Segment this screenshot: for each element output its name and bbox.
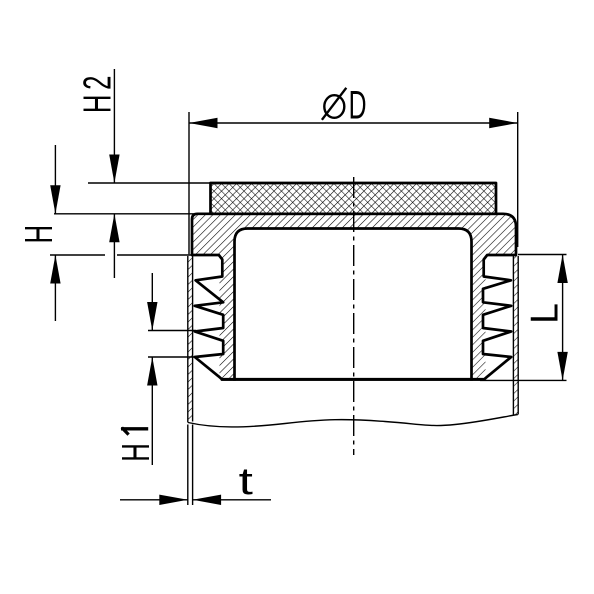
svg-text:D: D xyxy=(349,84,367,128)
svg-text:H: H xyxy=(18,225,62,244)
svg-text:H: H xyxy=(115,443,159,462)
svg-text:t: t xyxy=(239,459,254,502)
svg-text:H2: H2 xyxy=(76,71,120,113)
svg-text:L: L xyxy=(524,303,567,324)
